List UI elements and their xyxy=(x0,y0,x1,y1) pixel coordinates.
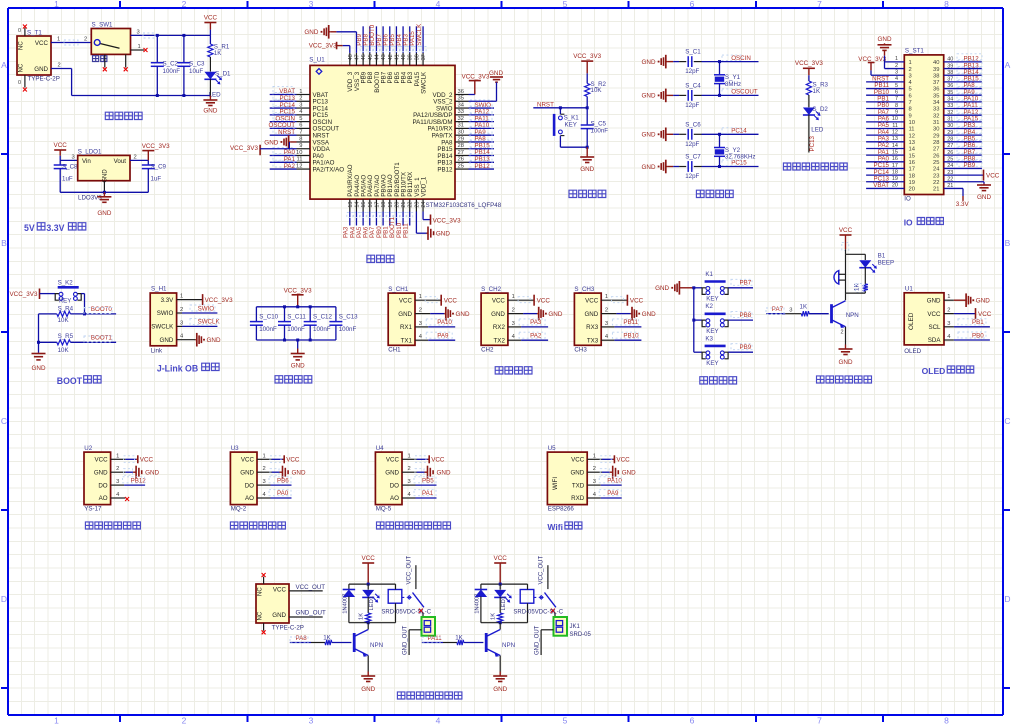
title keys circuit xyxy=(700,377,737,384)
svg-text:GND: GND xyxy=(878,36,892,43)
relay LED resistor 1K xyxy=(367,597,369,613)
svg-text:A: A xyxy=(1,60,7,70)
svg-text:PA1: PA1 xyxy=(422,490,434,497)
svg-text:30: 30 xyxy=(947,123,953,129)
net label GND_OUT wire xyxy=(289,616,323,618)
svg-text:12pF: 12pF xyxy=(685,141,699,148)
svg-text:1: 1 xyxy=(57,37,60,43)
svg-text:10uF: 10uF xyxy=(189,68,203,75)
svg-text:36: 36 xyxy=(458,89,464,95)
H1 pin2 wire SWIO xyxy=(177,312,182,314)
CH3 pin2 wire to GND xyxy=(601,313,616,315)
wire S_C6 to crystal node xyxy=(694,133,702,135)
title alarm circuit xyxy=(817,376,872,383)
connector T1 TYPE-C-2P xyxy=(17,36,51,75)
svg-text:VCC: VCC xyxy=(140,457,154,464)
svg-text:GND: GND xyxy=(642,311,656,318)
svg-text:11: 11 xyxy=(296,157,302,163)
pushbutton K1 KEY xyxy=(694,287,702,289)
svg-text:8: 8 xyxy=(299,136,302,142)
svg-text:TX3: TX3 xyxy=(587,337,599,344)
svg-text:29: 29 xyxy=(947,130,953,136)
pushbutton S_K1 KEY xyxy=(559,108,561,114)
chip bottom pins xyxy=(349,199,351,211)
svg-text:PA9: PA9 xyxy=(607,490,619,497)
capacitor S_C5 100nF xyxy=(586,108,588,125)
svg-text:VCC_3V3: VCC_3V3 xyxy=(573,53,601,60)
svg-text:GND: GND xyxy=(456,311,470,318)
svg-text:6: 6 xyxy=(690,0,695,9)
svg-text:VCC: VCC xyxy=(95,457,109,464)
svg-text:S_C12: S_C12 xyxy=(313,313,332,320)
svg-text:1: 1 xyxy=(909,60,912,66)
CH3 pin4 wire PB10 xyxy=(601,339,614,341)
svg-text:S_CH2: S_CH2 xyxy=(481,286,502,293)
svg-text:VCC_3V3: VCC_3V3 xyxy=(284,288,312,295)
svg-text:VCC: VCC xyxy=(273,587,287,594)
svg-text:1N4007: 1N4007 xyxy=(475,593,481,613)
svg-text:21: 21 xyxy=(401,202,407,208)
svg-text:45: 45 xyxy=(368,54,374,60)
svg-text:32: 32 xyxy=(947,110,953,116)
svg-text:CH1: CH1 xyxy=(388,347,401,354)
title flame module xyxy=(85,522,140,529)
svg-text:3: 3 xyxy=(419,321,422,327)
svg-text:NPN: NPN xyxy=(502,642,515,649)
svg-text:35: 35 xyxy=(947,90,953,96)
ground symbol above chip VSS_3 xyxy=(329,31,331,33)
svg-text:S_C3: S_C3 xyxy=(189,61,205,68)
alarm emitter to GND xyxy=(845,327,847,345)
ST1 right net labels xyxy=(957,54,982,60)
ground symbol at chip VSSA xyxy=(289,141,291,143)
relay top rail xyxy=(349,583,396,585)
wire K1 to PB7 xyxy=(728,287,753,289)
svg-text:GND: GND xyxy=(398,311,412,318)
svg-text:VCC: VCC xyxy=(35,40,49,47)
svg-text:GND: GND xyxy=(839,359,853,366)
svg-text:28: 28 xyxy=(947,137,953,143)
svg-text:37: 37 xyxy=(421,54,427,60)
alarm base wire PA7 1K xyxy=(766,313,785,315)
svg-text:VCC: VCC xyxy=(204,14,218,21)
CH1 pin2 wire to GND xyxy=(415,313,430,315)
svg-text:8: 8 xyxy=(944,716,949,725)
svg-text:10: 10 xyxy=(909,120,915,126)
svg-text:3: 3 xyxy=(895,70,898,76)
net GND_OUT from connector xyxy=(409,629,421,631)
LED S_D2 xyxy=(808,95,810,107)
svg-text:2: 2 xyxy=(299,96,302,102)
svg-text:SRD-05: SRD-05 xyxy=(570,632,592,638)
svg-text:12: 12 xyxy=(892,129,898,135)
svg-text:GND: GND xyxy=(437,470,451,477)
svg-text:GND: GND xyxy=(642,164,656,171)
svg-text:36: 36 xyxy=(947,83,953,89)
OLED pin4 wire PB0 xyxy=(944,339,954,341)
svg-text:GND: GND xyxy=(304,29,318,36)
chip right pins xyxy=(455,94,469,96)
svg-text:PB7: PB7 xyxy=(740,280,752,287)
svg-text:21: 21 xyxy=(933,187,939,193)
svg-text:S_D2: S_D2 xyxy=(812,106,828,113)
relay base wire PA11 1K xyxy=(422,642,443,644)
svg-text:VCC: VCC xyxy=(927,311,941,318)
svg-text:GND: GND xyxy=(207,337,221,344)
svg-text:10K: 10K xyxy=(591,87,603,94)
svg-text:RX3: RX3 xyxy=(586,324,599,331)
svg-text:GND_OUT: GND_OUT xyxy=(403,625,409,655)
ground symbol keys xyxy=(679,287,681,289)
SW1 pin1 stub xyxy=(131,49,145,51)
svg-text:OLED: OLED xyxy=(922,366,946,376)
svg-text:TX1: TX1 xyxy=(401,337,413,344)
svg-text:31: 31 xyxy=(947,117,953,123)
svg-text:NPN: NPN xyxy=(846,312,859,319)
svg-text:19: 19 xyxy=(892,176,898,182)
svg-text:IO: IO xyxy=(904,218,913,228)
svg-text:6: 6 xyxy=(895,90,898,96)
U2 pin2 wire to GND xyxy=(111,471,126,473)
svg-text:GND: GND xyxy=(976,298,990,305)
module U2 YS-17 body xyxy=(84,452,111,505)
svg-text:AO: AO xyxy=(390,495,399,502)
svg-text:3: 3 xyxy=(137,30,140,36)
svg-text:3: 3 xyxy=(408,479,411,485)
relay emitter to GND xyxy=(367,656,369,672)
svg-text:0: 0 xyxy=(18,28,21,34)
net label NRST and wire xyxy=(533,107,587,109)
svg-text:GND: GND xyxy=(642,132,656,139)
connector S_H1 body xyxy=(150,293,176,346)
H1 pin4 wire to GND xyxy=(177,339,196,341)
ground symbol BOOT xyxy=(38,352,40,355)
svg-text:VCC: VCC xyxy=(399,297,413,304)
U4 pin4 wire PA1 xyxy=(402,497,416,499)
svg-text:OLED: OLED xyxy=(904,348,921,355)
svg-text:VCC: VCC xyxy=(286,457,300,464)
CH3 pin1 wire to VCC xyxy=(601,299,627,301)
svg-text:DO: DO xyxy=(390,482,399,489)
relay base wire PA8 1K xyxy=(290,642,311,644)
alarm LED xyxy=(864,254,866,260)
svg-text:1K: 1K xyxy=(491,613,497,620)
svg-text:42: 42 xyxy=(388,54,394,60)
svg-text:1: 1 xyxy=(299,89,302,95)
capacitor S_C9 1uF xyxy=(147,160,149,165)
svg-text:24: 24 xyxy=(947,163,953,169)
svg-text:5: 5 xyxy=(299,116,302,122)
svg-text:7: 7 xyxy=(817,716,822,725)
svg-text:46: 46 xyxy=(361,54,367,60)
svg-text:2: 2 xyxy=(182,0,187,9)
svg-text:1N4007: 1N4007 xyxy=(343,593,349,613)
svg-text:S_LDO1: S_LDO1 xyxy=(78,149,102,156)
svg-text:KEY: KEY xyxy=(706,296,718,303)
svg-text:GND: GND xyxy=(548,311,562,318)
svg-text:KEY: KEY xyxy=(706,360,718,367)
svg-text:JK1: JK1 xyxy=(570,624,581,630)
svg-text:U5: U5 xyxy=(548,445,556,452)
svg-text:GND: GND xyxy=(102,169,108,183)
relay switch contact xyxy=(402,596,411,598)
svg-text:PB0: PB0 xyxy=(972,332,984,339)
svg-text:GND: GND xyxy=(203,108,217,115)
svg-text:3: 3 xyxy=(512,321,515,327)
svg-text:NRST: NRST xyxy=(537,101,554,108)
svg-text:VCC_3V3: VCC_3V3 xyxy=(433,218,461,225)
svg-text:3: 3 xyxy=(947,321,950,327)
svg-text:27: 27 xyxy=(947,143,953,149)
transistor NPN alarm xyxy=(830,304,833,323)
connector S_CH1 body xyxy=(388,293,415,345)
svg-text:TYPE-C-2P: TYPE-C-2P xyxy=(28,75,60,82)
svg-text:39: 39 xyxy=(933,67,939,73)
svg-text:100nF: 100nF xyxy=(259,326,277,333)
svg-text:LED1: LED1 xyxy=(369,596,375,611)
ground symbol at S_C1 xyxy=(666,61,668,63)
svg-text:PA7: PA7 xyxy=(772,306,784,313)
svg-text:Link: Link xyxy=(151,347,163,354)
X on T2 top pin xyxy=(262,573,266,577)
capacitor S_C7 12pF xyxy=(667,166,673,168)
X at relay switch xyxy=(551,609,555,613)
svg-text:29: 29 xyxy=(458,136,464,142)
svg-text:32: 32 xyxy=(458,116,464,122)
svg-text:PB12: PB12 xyxy=(437,166,453,173)
capacitor S_C13 100nF xyxy=(335,307,337,322)
svg-text:PB6: PB6 xyxy=(277,477,289,484)
svg-text:15: 15 xyxy=(892,149,898,155)
svg-text:3: 3 xyxy=(605,321,608,327)
svg-text:1K: 1K xyxy=(323,634,331,641)
title filter circuit xyxy=(275,376,312,383)
svg-text:MQ-5: MQ-5 xyxy=(376,505,392,512)
title serial circuit xyxy=(495,367,532,374)
title power circuit xyxy=(105,112,142,119)
svg-text:14: 14 xyxy=(892,143,898,149)
crystal Y2 xyxy=(719,134,721,147)
U4 pin3 wire PB5 xyxy=(402,484,416,486)
wire BOOT left vertical to ground xyxy=(39,313,57,315)
title relay control xyxy=(397,692,462,699)
svg-text:7: 7 xyxy=(909,100,912,106)
svg-text:20: 20 xyxy=(394,202,400,208)
svg-text:KEY: KEY xyxy=(565,122,577,129)
svg-text:20: 20 xyxy=(909,187,915,193)
svg-text:10: 10 xyxy=(296,150,302,156)
svg-text:100nF: 100nF xyxy=(313,326,331,333)
svg-text:12pF: 12pF xyxy=(685,173,699,180)
svg-text:31: 31 xyxy=(458,123,464,129)
svg-text:Wifi: Wifi xyxy=(547,522,563,532)
svg-text:12pF: 12pF xyxy=(685,102,699,109)
svg-text:AO: AO xyxy=(245,495,254,502)
ground at ST1 pin22 xyxy=(983,182,985,184)
svg-text:VCC: VCC xyxy=(585,297,599,304)
svg-text:13: 13 xyxy=(909,140,915,146)
OLED pin1 wire to GND xyxy=(944,299,954,301)
svg-text:S_C7: S_C7 xyxy=(685,154,701,161)
svg-text:6: 6 xyxy=(909,93,912,99)
svg-text:4: 4 xyxy=(436,0,441,9)
svg-text:1: 1 xyxy=(512,294,515,300)
svg-text:5: 5 xyxy=(563,0,568,9)
svg-text:GND: GND xyxy=(642,59,656,66)
svg-text:SWCLK: SWCLK xyxy=(416,23,423,46)
capacitor S_C8 1uF xyxy=(59,160,61,165)
svg-text:SRD-05VDC-SL-C: SRD-05VDC-SL-C xyxy=(513,609,563,615)
svg-text:2: 2 xyxy=(134,154,137,160)
svg-text:100nF: 100nF xyxy=(287,326,305,333)
svg-text:23: 23 xyxy=(933,173,939,179)
wire VCC to LDO Vin xyxy=(60,159,77,161)
svg-text:2: 2 xyxy=(593,466,596,472)
svg-text:0: 0 xyxy=(18,80,21,86)
U3 pin3 wire PB6 xyxy=(257,484,271,486)
svg-text:1K: 1K xyxy=(813,88,821,95)
title gas module xyxy=(377,522,451,529)
wire LDO ground rail xyxy=(60,191,148,193)
svg-text:GND: GND xyxy=(94,469,108,476)
unconnected X marks under SW1 xyxy=(103,67,107,71)
svg-text:8: 8 xyxy=(895,103,898,109)
chip bottom net wires and rotated labels xyxy=(349,212,351,226)
svg-text:SWCLK: SWCLK xyxy=(198,319,221,326)
module U5 ESP8266 body xyxy=(547,452,587,505)
filter top rail xyxy=(256,306,336,308)
relay LED xyxy=(367,584,369,590)
title reset circuit xyxy=(569,190,606,197)
LDO GND pin stub xyxy=(103,181,105,193)
svg-text:3: 3 xyxy=(180,320,183,326)
svg-text:25: 25 xyxy=(947,157,953,163)
svg-text:44: 44 xyxy=(374,54,380,60)
connector S_CH2 body xyxy=(481,293,508,345)
svg-text:D: D xyxy=(1004,594,1010,604)
svg-text:VCC_OUT: VCC_OUT xyxy=(296,584,326,591)
alarm bottom node wire xyxy=(846,292,866,294)
svg-text:2: 2 xyxy=(512,308,515,314)
title smoke module xyxy=(230,522,285,529)
T1 bottom pin stub xyxy=(24,75,26,88)
svg-text:S_K2: S_K2 xyxy=(58,279,74,286)
U2 pin1 wire to VCC xyxy=(111,458,126,460)
svg-text:36: 36 xyxy=(933,87,939,93)
svg-text:RX1: RX1 xyxy=(400,324,413,331)
svg-text:GND: GND xyxy=(291,363,305,370)
svg-text:U2: U2 xyxy=(84,445,92,452)
svg-text:VCC_3V3: VCC_3V3 xyxy=(142,143,170,150)
svg-text:38: 38 xyxy=(947,70,953,76)
crystal Y1 xyxy=(719,62,721,75)
ST1 right pin wires xyxy=(944,61,982,63)
svg-text:5: 5 xyxy=(563,716,568,725)
svg-text:S_SW1: S_SW1 xyxy=(92,22,114,29)
svg-text:33: 33 xyxy=(458,109,464,115)
flyback diode 1N4007 xyxy=(480,584,482,589)
svg-text:GND: GND xyxy=(655,285,669,292)
svg-text:1: 1 xyxy=(54,716,59,725)
ground symbol reset xyxy=(586,146,589,149)
relay LED xyxy=(499,584,501,590)
svg-text:31: 31 xyxy=(933,120,939,126)
svg-text:K3: K3 xyxy=(705,335,713,342)
svg-text:6: 6 xyxy=(299,123,302,129)
ST1 left pin wires xyxy=(885,61,905,63)
svg-text:KEY: KEY xyxy=(706,328,718,335)
svg-text:S_T1: S_T1 xyxy=(27,30,42,37)
svg-text:2: 2 xyxy=(841,330,844,336)
svg-text:41: 41 xyxy=(394,54,400,60)
svg-text:GND: GND xyxy=(361,686,375,693)
green terminal connector xyxy=(554,617,568,636)
svg-text:DO: DO xyxy=(98,482,107,489)
title main chip xyxy=(367,255,394,262)
CH2 pin1 wire to VCC xyxy=(508,299,534,301)
svg-text:PB12: PB12 xyxy=(131,477,147,484)
svg-text:20: 20 xyxy=(892,183,898,189)
alarm top node wires xyxy=(845,249,847,254)
svg-text:23: 23 xyxy=(414,202,420,208)
svg-text:13: 13 xyxy=(892,136,898,142)
svg-text:18: 18 xyxy=(892,169,898,175)
svg-text:1K: 1K xyxy=(455,634,463,641)
svg-text:2: 2 xyxy=(180,307,183,313)
capacitor S_C1 12pF xyxy=(667,61,673,63)
svg-text:PA2/TX/AO: PA2/TX/AO xyxy=(313,166,345,173)
U4 pin1 wire to VCC xyxy=(402,458,417,460)
CH2 pin2 wire to GND xyxy=(508,313,523,315)
relay emitter to GND xyxy=(499,656,501,672)
relay switch contact xyxy=(534,596,543,598)
switch S_SW1 xyxy=(91,29,130,55)
svg-text:GND: GND xyxy=(622,470,636,477)
svg-text:GND: GND xyxy=(489,70,503,77)
resistor S_R3 1K xyxy=(806,81,811,95)
wire GND bottom rail xyxy=(51,68,72,70)
net GND_OUT from connector xyxy=(541,629,553,631)
svg-text:9: 9 xyxy=(909,113,912,119)
svg-text:S_C13: S_C13 xyxy=(339,313,358,320)
U5 pin1 wire to VCC xyxy=(587,458,602,460)
svg-text:BOOT: BOOT xyxy=(57,376,83,386)
svg-text:2: 2 xyxy=(84,37,87,43)
U3 pin1 wire to VCC xyxy=(257,458,272,460)
svg-text:S_C4: S_C4 xyxy=(685,82,701,89)
wire S_C1 to crystal node xyxy=(694,61,702,63)
svg-text:PB9: PB9 xyxy=(740,344,752,351)
wire K2 to BOOT0 node xyxy=(81,293,84,295)
svg-text:9: 9 xyxy=(299,143,302,149)
SW1 bottom stubs xyxy=(104,54,106,67)
keys common vertical wire xyxy=(693,288,695,352)
net label VCC_OUT wire xyxy=(289,590,323,592)
svg-text:1uF: 1uF xyxy=(62,176,73,183)
svg-text:S_C2: S_C2 xyxy=(163,61,179,68)
LED S_D1 xyxy=(209,57,211,72)
svg-text:RXD: RXD xyxy=(571,495,585,502)
chip right net wires and labels xyxy=(470,100,492,106)
svg-text:7: 7 xyxy=(817,0,822,9)
svg-text:5: 5 xyxy=(909,87,912,93)
svg-text:17: 17 xyxy=(892,163,898,169)
svg-text:1: 1 xyxy=(895,56,898,62)
OLED pin3 wire PB1 xyxy=(944,326,954,328)
svg-text:STM32F103C8T6_LQFP48: STM32F103C8T6_LQFP48 xyxy=(426,202,502,209)
svg-text:B: B xyxy=(1,238,7,248)
svg-text:2: 2 xyxy=(419,308,422,314)
